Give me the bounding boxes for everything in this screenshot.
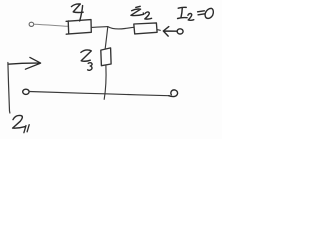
wire Z3 down to bottom node B — [104, 66, 106, 100]
label Z1 — [71, 4, 83, 13]
label I2 = 0 — [178, 7, 188, 18]
current arrow I2 (pointing left) — [163, 27, 177, 36]
terminal top-left (port 1 +) — [29, 22, 34, 26]
terminal top-right (port 2, open) — [177, 29, 183, 34]
label Z11 — [13, 115, 26, 128]
wire node A to Z2 — [108, 27, 134, 29]
terminal bottom-left (port 1 -) — [23, 89, 29, 94]
label Z3 — [81, 50, 91, 61]
current arrow I1 (pointing right, at left side) — [8, 57, 41, 69]
wire Z1 to node A — [91, 26, 108, 29]
left vertical wire — [8, 63, 10, 114]
bottom wire left segment — [29, 92, 105, 94]
resistor box Z2 — [134, 23, 157, 34]
label Z2 — [131, 6, 144, 15]
terminal bottom-right (port 2 -, open) — [169, 90, 178, 97]
resistor box Z3 — [101, 48, 111, 66]
bottom wire right segment — [105, 94, 169, 96]
resistor box Z1 — [66, 20, 91, 35]
wire Z2 to arrow — [157, 29, 160, 32]
wire node A down to Z3 — [105, 27, 108, 49]
wire top-left terminal to Z1 — [34, 24, 68, 26]
